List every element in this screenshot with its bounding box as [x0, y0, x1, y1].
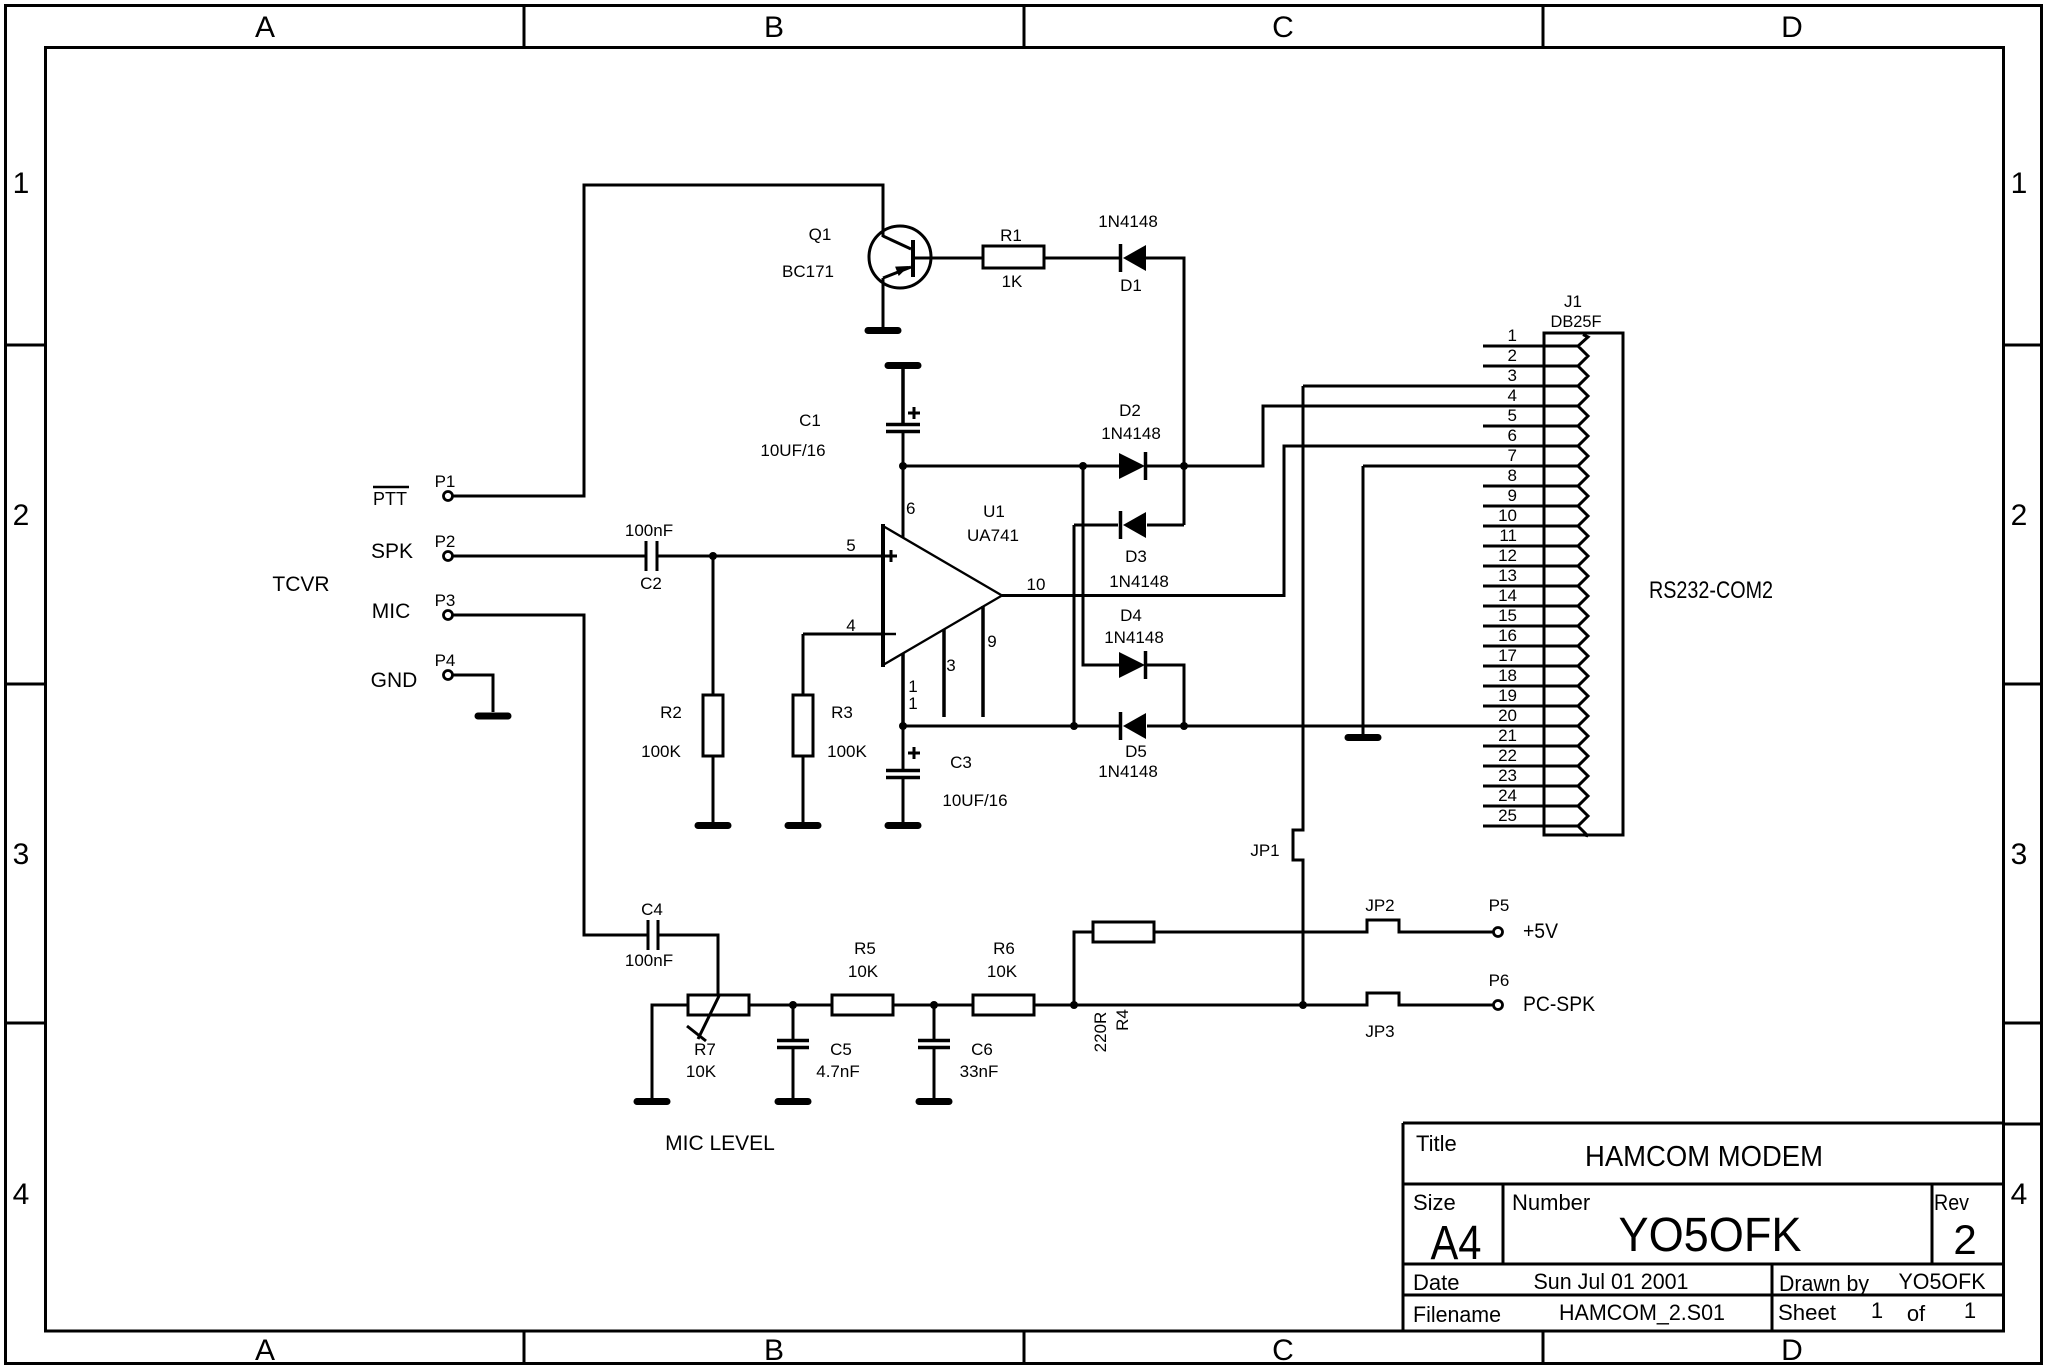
- svg-text:JP2: JP2: [1365, 896, 1394, 915]
- svg-text:13: 13: [1498, 566, 1517, 585]
- svg-text:R4: R4: [1113, 1009, 1132, 1031]
- svg-text:6: 6: [906, 499, 915, 518]
- svg-text:5: 5: [1508, 406, 1517, 425]
- svg-text:PTT: PTT: [373, 489, 407, 509]
- svg-text:JP1: JP1: [1250, 841, 1279, 860]
- svg-text:Title: Title: [1416, 1131, 1457, 1156]
- svg-text:10K: 10K: [686, 1062, 717, 1081]
- svg-text:D5: D5: [1125, 742, 1147, 761]
- svg-text:1N4148: 1N4148: [1104, 628, 1164, 647]
- svg-text:R7: R7: [694, 1040, 716, 1059]
- svg-text:D2: D2: [1119, 401, 1141, 420]
- svg-text:Date: Date: [1413, 1270, 1459, 1295]
- svg-text:100K: 100K: [827, 742, 867, 761]
- svg-text:11: 11: [1499, 526, 1517, 545]
- svg-text:+5V: +5V: [1523, 920, 1558, 943]
- svg-text:18: 18: [1498, 666, 1517, 685]
- svg-text:R6: R6: [993, 939, 1015, 958]
- svg-text:220R: 220R: [1091, 1012, 1110, 1053]
- svg-text:RS232-COM2: RS232-COM2: [1649, 577, 1773, 604]
- svg-text:Q1: Q1: [809, 225, 832, 244]
- svg-text:24: 24: [1498, 786, 1517, 805]
- svg-text:7: 7: [1508, 446, 1517, 465]
- svg-text:GND: GND: [371, 669, 418, 692]
- svg-text:of: of: [1907, 1301, 1926, 1326]
- svg-text:D4: D4: [1120, 606, 1142, 625]
- svg-text:HAMCOM_2.S01: HAMCOM_2.S01: [1559, 1300, 1725, 1325]
- svg-text:100K: 100K: [641, 742, 681, 761]
- svg-text:Rev: Rev: [1934, 1190, 1969, 1215]
- svg-text:C6: C6: [971, 1040, 993, 1059]
- svg-text:10: 10: [1027, 575, 1046, 594]
- svg-text:SPK: SPK: [371, 540, 413, 563]
- svg-text:C3: C3: [950, 753, 972, 772]
- svg-text:P4: P4: [435, 651, 456, 670]
- svg-text:12: 12: [1498, 546, 1517, 565]
- svg-text:Filename: Filename: [1413, 1302, 1501, 1327]
- svg-text:1N4148: 1N4148: [1098, 212, 1158, 231]
- svg-text:J1: J1: [1564, 292, 1582, 311]
- svg-text:P6: P6: [1489, 971, 1510, 990]
- svg-text:1N4148: 1N4148: [1101, 424, 1161, 443]
- svg-text:2: 2: [1508, 346, 1517, 365]
- svg-text:B: B: [764, 1334, 784, 1367]
- svg-text:3: 3: [13, 838, 30, 871]
- svg-text:U1: U1: [983, 502, 1005, 521]
- svg-text:17: 17: [1498, 646, 1517, 665]
- svg-text:Sun Jul 01 2001: Sun Jul 01 2001: [1534, 1269, 1689, 1294]
- svg-text:10K: 10K: [848, 962, 879, 981]
- svg-text:1: 1: [908, 694, 917, 713]
- svg-text:1: 1: [2011, 167, 2028, 200]
- svg-text:1: 1: [13, 167, 30, 200]
- svg-text:R2: R2: [660, 703, 682, 722]
- svg-text:33nF: 33nF: [960, 1062, 999, 1081]
- svg-text:4: 4: [846, 616, 855, 635]
- svg-text:4.7nF: 4.7nF: [816, 1062, 859, 1081]
- svg-text:D: D: [1781, 11, 1803, 44]
- svg-text:Drawn by: Drawn by: [1779, 1271, 1869, 1296]
- svg-text:P3: P3: [435, 591, 456, 610]
- svg-text:21: 21: [1498, 726, 1517, 745]
- svg-text:MIC LEVEL: MIC LEVEL: [665, 1132, 775, 1155]
- svg-text:D: D: [1781, 1334, 1803, 1367]
- svg-text:C2: C2: [640, 574, 662, 593]
- svg-text:R3: R3: [831, 703, 853, 722]
- svg-text:1K: 1K: [1002, 272, 1023, 291]
- svg-text:19: 19: [1498, 686, 1517, 705]
- svg-text:10K: 10K: [987, 962, 1018, 981]
- svg-text:3: 3: [1508, 366, 1517, 385]
- svg-text:C4: C4: [641, 900, 663, 919]
- svg-text:UA741: UA741: [967, 526, 1019, 545]
- svg-text:C: C: [1272, 1334, 1294, 1367]
- svg-text:10: 10: [1498, 506, 1517, 525]
- svg-text:DB25F: DB25F: [1551, 312, 1602, 331]
- svg-text:A: A: [255, 11, 275, 44]
- svg-text:4: 4: [1508, 386, 1517, 405]
- svg-text:20: 20: [1498, 706, 1517, 725]
- svg-text:100nF: 100nF: [625, 951, 673, 970]
- svg-text:9: 9: [1508, 486, 1517, 505]
- svg-text:P2: P2: [435, 532, 456, 551]
- svg-text:A4: A4: [1431, 1217, 1482, 1270]
- svg-text:R1: R1: [1000, 226, 1022, 245]
- svg-text:10UF/16: 10UF/16: [942, 791, 1007, 810]
- svg-text:9: 9: [987, 632, 996, 651]
- svg-text:3: 3: [946, 656, 955, 675]
- svg-text:25: 25: [1498, 806, 1517, 825]
- svg-text:100nF: 100nF: [625, 521, 673, 540]
- svg-text:15: 15: [1498, 606, 1517, 625]
- svg-text:C1: C1: [799, 411, 821, 430]
- svg-text:R5: R5: [854, 939, 876, 958]
- svg-text:2: 2: [1953, 1216, 1976, 1263]
- svg-text:Number: Number: [1512, 1190, 1590, 1215]
- svg-text:YO5OFK: YO5OFK: [1899, 1269, 1986, 1294]
- svg-text:TCVR: TCVR: [272, 573, 329, 596]
- svg-text:10UF/16: 10UF/16: [760, 441, 825, 460]
- svg-text:1N4148: 1N4148: [1109, 572, 1169, 591]
- svg-text:23: 23: [1498, 766, 1517, 785]
- svg-text:1: 1: [1871, 1298, 1883, 1323]
- svg-text:P1: P1: [435, 472, 456, 491]
- svg-text:16: 16: [1498, 626, 1517, 645]
- svg-text:5: 5: [846, 536, 855, 555]
- svg-text:2: 2: [2011, 499, 2028, 532]
- svg-text:4: 4: [13, 1178, 30, 1211]
- svg-text:22: 22: [1498, 746, 1517, 765]
- svg-text:MIC: MIC: [372, 600, 411, 623]
- svg-text:B: B: [764, 11, 784, 44]
- svg-text:C: C: [1272, 11, 1294, 44]
- svg-text:3: 3: [2011, 838, 2028, 871]
- svg-text:P5: P5: [1489, 896, 1510, 915]
- svg-text:PC-SPK: PC-SPK: [1523, 993, 1595, 1016]
- svg-text:4: 4: [2011, 1178, 2028, 1211]
- svg-text:6: 6: [1508, 426, 1517, 445]
- svg-text:D1: D1: [1120, 276, 1142, 295]
- svg-text:HAMCOM MODEM: HAMCOM MODEM: [1585, 1141, 1823, 1173]
- svg-text:Size: Size: [1413, 1190, 1456, 1215]
- svg-text:1: 1: [1964, 1298, 1976, 1323]
- svg-text:C5: C5: [830, 1040, 852, 1059]
- svg-text:Sheet: Sheet: [1778, 1300, 1836, 1325]
- svg-text:JP3: JP3: [1365, 1022, 1394, 1041]
- svg-text:2: 2: [13, 499, 30, 532]
- svg-text:A: A: [255, 1334, 275, 1367]
- svg-text:D3: D3: [1125, 547, 1147, 566]
- svg-text:YO5OFK: YO5OFK: [1619, 1209, 1802, 1262]
- svg-text:BC171: BC171: [782, 262, 834, 281]
- svg-text:14: 14: [1498, 586, 1517, 605]
- svg-text:1N4148: 1N4148: [1098, 762, 1158, 781]
- svg-text:8: 8: [1508, 466, 1517, 485]
- svg-text:1: 1: [1508, 326, 1517, 345]
